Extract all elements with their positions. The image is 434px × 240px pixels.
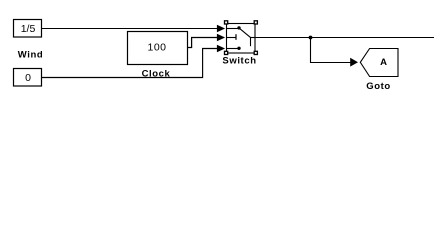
in3 internal stub <box>227 48 238 50</box>
wire Clock to Switch in2 <box>188 38 218 48</box>
selection handle top-right <box>254 21 257 24</box>
wire 0 to Switch in3 <box>42 49 218 78</box>
constant block Wind "1/5" <box>14 20 42 38</box>
junction node <box>309 36 313 40</box>
arrow into Switch in3 <box>217 45 225 53</box>
output contact vertical <box>250 38 252 47</box>
wire Wind to Switch in1 <box>42 28 218 30</box>
in1 contact dot <box>237 26 240 29</box>
in2 internal stub <box>227 37 236 39</box>
svg-text:100: 100 <box>147 41 166 53</box>
goto tag block "A" <box>360 49 398 77</box>
svg-text:Wind: Wind <box>18 50 44 61</box>
selection handle top-left <box>225 21 228 24</box>
selection handle bottom-left <box>225 51 228 54</box>
arrow into Switch in2 <box>217 34 225 42</box>
svg-text:0: 0 <box>25 72 31 84</box>
switch blade <box>239 28 250 37</box>
selection handle bottom-right <box>254 51 257 54</box>
wire branch down to Goto <box>311 38 351 63</box>
wire Switch output to right edge <box>255 37 434 39</box>
switch block U1 <box>227 24 256 54</box>
svg-text:1/5: 1/5 <box>21 23 36 35</box>
constant block "0" <box>14 69 42 87</box>
arrow into Switch in1 <box>217 25 225 33</box>
clock block "100" <box>128 32 188 65</box>
in3 contact dot <box>237 47 240 50</box>
in2 threshold bar <box>235 34 237 40</box>
svg-text:Switch: Switch <box>222 56 256 67</box>
arrow into Goto <box>350 58 358 67</box>
svg-text:A: A <box>380 57 387 68</box>
in1 internal stub <box>227 28 238 30</box>
output internal stub <box>251 37 256 39</box>
svg-text:Goto: Goto <box>366 81 391 92</box>
